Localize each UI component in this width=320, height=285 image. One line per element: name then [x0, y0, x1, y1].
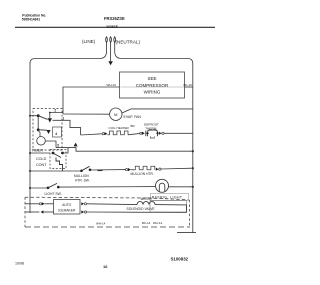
wire: mullion heater to right rail	[161, 167, 193, 170]
icemaker harness dashed enclosure	[25, 197, 190, 227]
bottom stub line	[177, 232, 196, 234]
connector icemaker output 2	[81, 210, 186, 213]
connector on mullion row	[126, 168, 131, 171]
compressor box	[120, 72, 185, 98]
timer contact common dot	[37, 114, 40, 117]
wire: contact 2 to compressor junction, label 2	[49, 109, 63, 119]
label REFRIG. LIGHT	[151, 193, 189, 200]
svg-text:(NEUTRAL): (NEUTRAL)	[116, 39, 141, 44]
svg-text:TIMER: TIMER	[32, 148, 44, 152]
svg-text:EVAP. FAN: EVAP. FAN	[124, 115, 142, 119]
wire: right rail	[192, 64, 194, 233]
wire: line side from plug to left rail	[30, 43, 107, 64]
wire: neutral side from plug to right rail	[115, 43, 193, 64]
svg-text:SOLENOID VALVE: SOLENOID VALVE	[127, 207, 156, 211]
svg-text:CONT: CONT	[36, 163, 47, 167]
label COLD CONT	[36, 157, 47, 167]
wire: light switch to lamp	[58, 186, 155, 189]
wire: solenoid to corner	[155, 205, 187, 213]
wire to mullion heater	[131, 169, 134, 171]
wire: switch to connector	[90, 169, 125, 171]
power plug prongs	[106, 37, 116, 43]
wire: light row from rail	[30, 187, 47, 189]
svg-text:FRS26ZSE: FRS26ZSE	[104, 16, 125, 21]
svg-text:SEE: SEE	[147, 76, 156, 81]
timer contact 2 arrow	[48, 118, 52, 122]
wire: evap fan row left	[63, 113, 110, 115]
wire: left rail	[29, 64, 31, 214]
label DEFROST THERM.	[144, 123, 159, 131]
publication number text	[22, 13, 47, 21]
svg-text:COIL HEATER: COIL HEATER	[109, 126, 130, 130]
wire: cold control output up to timer	[63, 148, 69, 154]
timer motor	[37, 131, 46, 146]
connector on icemaker return	[41, 210, 54, 213]
connector on icemaker feed	[39, 202, 53, 205]
wire: compressor box to right rail	[185, 86, 193, 88]
defrost timer dashed box	[33, 109, 62, 151]
timer switch blade 1	[38, 116, 47, 120]
connector icemaker output 1	[81, 202, 137, 205]
connector arrow on motor return	[74, 143, 78, 147]
connector on heater row	[102, 132, 107, 135]
wire: heater to defrost therm	[128, 133, 140, 134]
mullion heater switch	[80, 166, 91, 172]
wire: defrost heater row left	[81, 134, 102, 135]
svg-text:MULLION HTR.: MULLION HTR.	[131, 172, 154, 176]
svg-text:MULLION: MULLION	[74, 174, 89, 178]
svg-text:BK-16: BK-16	[184, 83, 193, 87]
auto icemaker box	[54, 200, 81, 215]
svg-text:16: 16	[103, 264, 108, 269]
wire: rail to timer common	[30, 115, 37, 117]
svg-text:ICEMAKER: ICEMAKER	[58, 208, 76, 212]
timer contact 4 arrow	[46, 130, 50, 134]
svg-text:WH-16: WH-16	[107, 83, 117, 87]
wire splice smudge	[98, 169, 103, 171]
wire: timer motor return row	[56, 148, 193, 152]
svg-text:LIGHT SW.: LIGHT SW.	[45, 192, 62, 196]
evap fan motor	[110, 108, 122, 120]
wire: rail to cold control	[30, 152, 50, 154]
svg-text:5995414841: 5995414841	[22, 17, 41, 21]
svg-text:3: 3	[57, 144, 59, 148]
defrost thermostat	[140, 130, 164, 138]
cold control dashed box	[50, 150, 66, 169]
svg-text:AUTO: AUTO	[62, 203, 72, 207]
cold control contacts and blade	[52, 152, 64, 158]
junction dots	[29, 115, 194, 189]
svg-text:COMPRESSOR: COMPRESSOR	[136, 83, 169, 88]
wire: contact 1 to defrost heater row, label 1	[53, 116, 81, 135]
light switch	[47, 183, 60, 189]
wire: mullion heater row from rail	[30, 170, 81, 172]
header rule	[15, 26, 215, 28]
svg-text:1: 1	[62, 116, 64, 120]
wire: lamp to right rail	[168, 186, 192, 188]
wire: compressor feed from timer junction	[63, 87, 120, 114]
timer internal vertical	[37, 116, 39, 130]
solenoid valve box	[150, 201, 187, 213]
wire: timer motor to terminal 3, label 3	[45, 141, 59, 148]
refrigerator light bulb	[156, 179, 169, 192]
wire: defrost therm to right rail	[164, 132, 193, 134]
timer terminal 4 box, label 4	[53, 127, 62, 137]
timer lower blade	[38, 129, 47, 131]
label MULLION HTR. SW.	[74, 174, 90, 183]
water solenoid valve coil	[137, 202, 155, 205]
mullion heater element (square wave)	[134, 166, 155, 170]
svg-text:HTR. SW.: HTR. SW.	[75, 178, 90, 182]
wire: icemaker return row	[25, 211, 39, 213]
svg-text:WH-14: WH-14	[96, 221, 106, 225]
svg-text:4: 4	[55, 132, 57, 136]
svg-text:(LINE): (LINE)	[82, 39, 96, 44]
svg-text:M: M	[114, 112, 117, 117]
ground prong wire and arrow	[108, 42, 113, 65]
timer lower contact dot	[37, 128, 40, 131]
svg-text:BK-14 WH-14: BK-14 WH-14	[142, 221, 163, 225]
svg-text:WIRING: WIRING	[144, 90, 161, 95]
svg-text:2: 2	[54, 109, 56, 113]
svg-text:S100832: S100832	[171, 257, 189, 262]
wire: evap fan to right rail	[122, 109, 193, 113]
cold control bellows	[56, 158, 63, 172]
svg-text:10/98: 10/98	[15, 262, 24, 266]
wire: icemaker feed row	[25, 203, 39, 205]
svg-text:COLD: COLD	[36, 157, 47, 161]
defrost heater element (square wave)	[107, 131, 128, 135]
connector after mullion heater	[156, 168, 161, 171]
